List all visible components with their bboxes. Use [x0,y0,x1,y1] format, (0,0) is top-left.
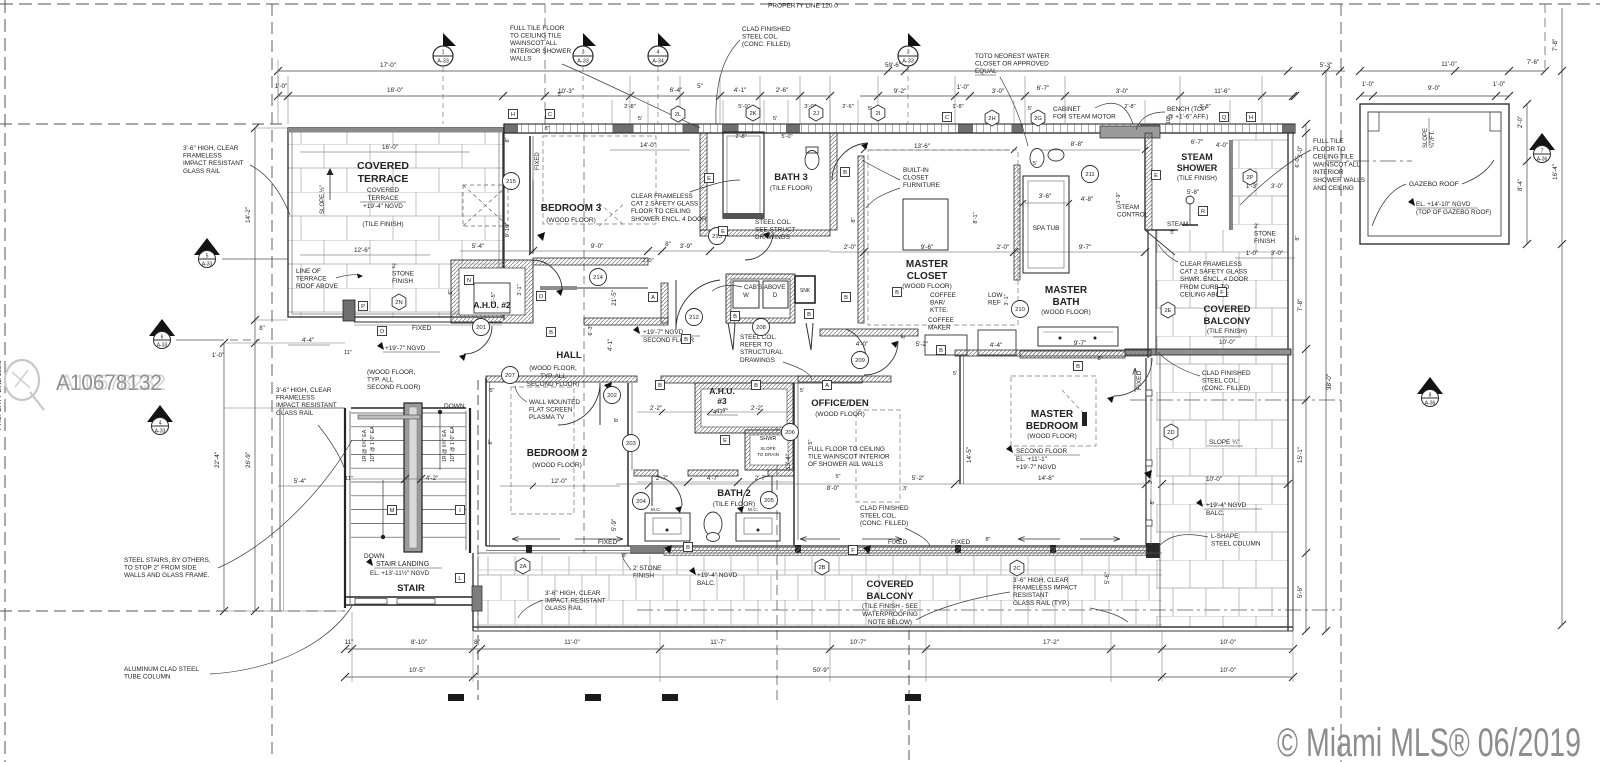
left dim line x255 [254,128,256,611]
svg-text:8'-4": 8'-4" [1518,179,1524,191]
svg-text:9'-0": 9'-0" [1428,85,1441,92]
grid square B [1074,362,1083,371]
svg-text:2L: 2L [675,112,682,118]
svg-text:2K: 2K [749,111,756,117]
steel col V column right [806,323,813,350]
grid square E [721,436,730,445]
svg-text:7: 7 [1541,149,1544,155]
svg-text:202: 202 [607,393,617,399]
ahu2 inner unit [474,283,510,313]
svg-text:SECOND FLOOR): SECOND FLOOR) [527,381,579,388]
svg-text:EL. +14'-10" NGVD: EL. +14'-10" NGVD [1416,201,1471,208]
slider arrow pair 1 [512,538,560,540]
svg-text:A-36: A-36 [1537,157,1548,163]
svg-text:3': 3' [903,486,907,492]
section marker 3/A-33 left [583,33,596,46]
svg-text:3: 3 [581,50,584,56]
svg-text:A.H.U.: A.H.U. [709,386,735,396]
svg-text:CONTROL: CONTROL [1117,212,1149,219]
svg-text:BAR/: BAR/ [930,300,945,307]
svg-text:SECOND FLOOR: SECOND FLOOR [1016,448,1068,455]
stair south wall [345,596,473,598]
svg-text:B: B [733,314,737,320]
svg-text:FRAMELESS IMPACT: FRAMELESS IMPACT [1013,585,1077,592]
svg-text:NOTE BELOW): NOTE BELOW) [868,619,912,626]
svg-text:A-33: A-33 [202,262,213,268]
bath2 dim lines [637,411,793,413]
steam shower walls [1144,133,1146,230]
svg-text:3'-0": 3'-0" [1297,146,1304,159]
svg-text:21'-5": 21'-5" [611,290,618,306]
svg-text:OF SHOWER ALL WALLS: OF SHOWER ALL WALLS [808,461,883,468]
washer box [733,281,759,308]
svg-text:2B: 2B [818,565,825,571]
bath2 vanity right [736,513,780,541]
svg-text:CAT 2 SAFETY GLASS: CAT 2 SAFETY GLASS [631,201,698,208]
svg-text:B: B [658,383,662,389]
svg-text:2E: 2E [1164,308,1171,314]
door arc master bedroom entry [846,329,866,360]
svg-text:GLASS RAIL (TYP.): GLASS RAIL (TYP.) [1013,600,1069,607]
west wall bedroom2 [485,378,487,546]
bath2 north hatched sill strip [664,548,1146,556]
south window wall of house [486,545,1146,547]
top wall mullion extension lines [611,100,613,124]
master bath south wall hatched [1020,351,1125,358]
svg-text:5': 5' [868,106,872,112]
svg-text:5: 5 [206,254,209,260]
hex marker 2I [871,105,885,121]
bedroom3 ceiling dashed rect [543,136,656,224]
east balcony inner boundary glass [1155,230,1157,355]
steam shower head symbol [1186,196,1194,204]
hex marker 2N [392,294,406,310]
stair west wall [344,408,346,608]
svg-text:A-33: A-33 [155,429,166,435]
grid square E [705,174,714,183]
hex marker 2L [671,106,685,122]
svg-text:CLEAR FRAMELESS: CLEAR FRAMELESS [631,193,693,200]
slider arrow pair 3 [1018,538,1060,540]
svg-text:ALUMINUM CLAD STEEL: ALUMINUM CLAD STEEL [124,666,199,673]
svg-text:HALL: HALL [556,350,582,361]
svg-text:14'-8": 14'-8" [1038,475,1054,482]
svg-text:A: A [651,295,655,301]
steam shower bench [1100,126,1160,138]
svg-text:STEAM: STEAM [1167,221,1188,228]
master bedroom ceiling dashed rect [1011,376,1096,446]
svg-text:O: O [380,329,385,335]
svg-text:8": 8" [901,333,907,338]
svg-text:TO DRAIN: TO DRAIN [757,452,779,457]
svg-text:5': 5' [1028,106,1032,112]
covered terrace tile floor [288,131,503,317]
svg-text:3'-0": 3'-0" [992,88,1005,95]
svg-text:B: B [843,170,847,176]
bedroom3 window small arrow marks [532,180,534,254]
closet-bath divider wall [1014,165,1020,280]
svg-text:BUILT-IN: BUILT-IN [903,167,929,174]
svg-text:REFER TO: REFER TO [740,342,772,349]
master closet south wall [820,329,918,336]
grid square I [456,506,465,515]
svg-text:FULL TILE: FULL TILE [1313,138,1344,145]
svg-text:FULL TILE FLOOR: FULL TILE FLOOR [510,25,565,32]
door arc hall to closet corridor [676,280,720,330]
svg-text:17'-2": 17'-2" [1043,639,1059,646]
svg-text:@ +1'-6" AFF.): @ +1'-6" AFF.) [1167,114,1208,121]
svg-text:5'-3": 5'-3" [1320,62,1333,69]
grid square C [546,110,555,119]
door flag south wall 2 [863,545,871,554]
svg-text:8": 8" [1097,356,1102,362]
svg-text:SNK: SNK [800,288,811,294]
door flag bedroom2 [604,382,612,391]
right dim line x1306 [1305,124,1307,631]
svg-text:A-33: A-33 [157,343,168,349]
ahu3 shower cell [745,430,793,470]
svg-text:FINISH: FINISH [392,278,413,285]
hall south wall mid segment [661,376,862,383]
svg-text:2C: 2C [1013,566,1020,572]
svg-text:CAT 2 SAFETY GLASS: CAT 2 SAFETY GLASS [1180,269,1247,276]
svg-text:4'-2": 4'-2" [426,475,439,482]
svg-text:6": 6" [448,289,454,294]
svg-text:FINISH: FINISH [1254,238,1275,245]
svg-text:5'-0": 5'-0" [781,134,792,140]
svg-text:8'-1": 8'-1" [973,212,979,223]
svg-text:8'-0": 8'-0" [827,485,840,492]
svg-text:BATH 2: BATH 2 [717,488,751,499]
svg-text:COFFEE: COFFEE [930,292,956,299]
grid dashed line southwest [0,610,345,612]
hall west wall piece [661,283,668,323]
svg-text:A-33: A-33 [902,59,914,65]
svg-text:TUBE COLUMN: TUBE COLUMN [124,674,171,681]
bath2 mid wall [634,470,658,476]
svg-text:8: 8 [1429,393,1432,399]
svg-text:2G: 2G [1034,116,1042,122]
fixed window under terrace [354,321,502,323]
svg-text:TYP. ALL: TYP. ALL [540,373,566,380]
svg-text:STONE: STONE [1254,231,1276,238]
room number 202 [604,387,621,404]
svg-text:STONE: STONE [392,271,414,278]
section marker 3/A-33 right [908,33,921,46]
svg-text:16'-0": 16'-0" [387,87,403,94]
triangle marker 4/A-33 lower [147,405,173,422]
svg-text:IMPACT RESISTANT: IMPACT RESISTANT [545,598,606,605]
door arc bath2 left [652,476,682,506]
bath2 toilet [704,512,722,536]
svg-text:(WOOD FLOOR): (WOOD FLOOR) [815,411,864,418]
svg-text:IMPACT RESISTANT: IMPACT RESISTANT [183,160,244,167]
svg-text:4'-0": 4'-0" [856,341,869,348]
svg-text:5'-6": 5'-6" [1297,586,1304,599]
office east dashed closet [856,410,900,502]
terrace-side window sill bedroom3 [503,124,505,320]
svg-text:6'-5": 6'-5" [491,292,497,304]
built-in closet dashed furniture [868,150,1018,325]
grid square F [849,546,858,555]
svg-text:FIXED: FIXED [535,152,541,170]
gazebo leader [1372,184,1406,226]
svg-text:CEILING TILE: CEILING TILE [1313,154,1354,161]
svg-text:8'-8": 8'-8" [1071,141,1084,148]
svg-text:FLAT SCREEN: FLAT SCREEN [529,407,573,414]
svg-text:8": 8" [985,537,990,543]
svg-text:DOWN: DOWN [364,553,385,560]
laundry cabinet walls [726,274,795,323]
property line top [0,3,1600,5]
svg-text:13'-4": 13'-4" [785,454,792,470]
svg-text:PLASMA TV: PLASMA TV [529,414,565,421]
svg-text:5'-6": 5'-6" [1104,572,1111,584]
svg-text:Q: Q [1222,115,1227,121]
svg-text:1'-0": 1'-0" [1362,81,1375,88]
svg-text:CLAD FINISHED: CLAD FINISHED [860,505,909,512]
svg-text:FIXED: FIXED [888,539,907,546]
left dim line x224 [223,343,225,611]
grid dashed line vertical x777 [776,390,778,700]
svg-text:SECOND FLOOR): SECOND FLOOR) [367,384,420,391]
svg-text:11'-6": 11'-6" [1214,88,1230,95]
hex marker 2H [985,110,999,126]
svg-text:4: 4 [656,50,659,56]
triangle marker 7/A-36 [1529,133,1555,150]
svg-text:11'-0": 11'-0" [1441,61,1457,68]
grid dashed line west [0,123,288,125]
svg-text:4: 4 [159,421,162,427]
centerline right balcony [1130,399,1341,401]
east covered balcony tile floor [1156,133,1288,627]
room number 203 [623,435,640,452]
svg-text:FLOOR TO CEILING: FLOOR TO CEILING [631,208,691,215]
grid square E [719,227,728,236]
svg-text:CLOSET: CLOSET [907,271,948,282]
svg-text:5": 5" [808,439,814,444]
svg-text:MASTER: MASTER [1031,409,1074,420]
svg-text:B: B [895,290,899,296]
gazebo roof outline [1360,104,1509,244]
svg-text:1'-0": 1'-0" [212,352,224,359]
svg-text:9'-6": 9'-6" [921,244,934,251]
hex marker 2K [746,105,760,121]
slider arrow pair 2 [800,538,840,540]
svg-text:GLASS RAIL: GLASS RAIL [276,410,314,417]
svg-text:211: 211 [1085,172,1094,178]
hex marker 2P [1243,169,1257,185]
hall mid south wall [584,318,668,325]
svg-text:TOTO NEOREST WATER: TOTO NEOREST WATER [975,53,1050,60]
svg-text:203: 203 [626,441,636,447]
grid square Q [1220,113,1229,122]
svg-text:E: E [723,438,727,444]
master bath east wall lower [1147,230,1149,358]
svg-text:WAINSCOT ALL: WAINSCOT ALL [1313,161,1360,168]
svg-text:GLASS RAIL: GLASS RAIL [183,168,221,175]
triangle marker 5/A-33 [194,238,220,255]
section marker 1/A-33 [443,33,456,46]
svg-text:10T @ 1'-0" EA: 10T @ 1'-0" EA [450,426,456,462]
svg-text:3'-6" HIGH, CLEAR: 3'-6" HIGH, CLEAR [1013,577,1069,584]
hex marker 2B [815,559,829,575]
svg-text:© Miami MLS® 06/2019: © Miami MLS® 06/2019 [1277,721,1581,762]
svg-text:10'-0": 10'-0" [1220,667,1236,674]
hex marker 2G [1031,110,1045,126]
steam shower west wall hatched [1145,133,1152,230]
grid square B [656,381,665,390]
svg-text:EL. +11'-1": EL. +11'-1" [1016,456,1047,463]
svg-text:5": 5" [557,92,562,98]
svg-text:A-33: A-33 [577,59,589,65]
svg-text:(WOOD FLOOR): (WOOD FLOOR) [1041,309,1090,316]
svg-text:STEAM: STEAM [1117,204,1139,211]
svg-text:BEDROOM: BEDROOM [1026,421,1078,432]
far right dim x1562 [1561,8,1563,625]
svg-text:B: B [939,348,943,354]
svg-text:COVERED: COVERED [357,160,409,172]
svg-text:H: H [511,112,515,118]
svg-text:2'-8": 2'-8" [735,134,746,140]
svg-text:3'-8": 3'-8" [1199,104,1210,110]
bath2 east wall [793,383,795,546]
svg-text:B: B [844,295,848,301]
svg-text:M: M [390,508,395,514]
svg-text:STEEL COL.: STEEL COL. [1202,378,1239,385]
covered terrace top rail [288,128,503,133]
grid dashed line vertical x1341 [1340,4,1342,762]
svg-text:4'-0": 4'-0" [1216,143,1228,149]
svg-text:(TILE FINISH - SEE: (TILE FINISH - SEE [862,603,918,610]
svg-text:F: F [1220,290,1224,296]
svg-text:BALC.: BALC. [1206,510,1225,517]
svg-text:2J: 2J [813,111,819,117]
room number 212 [686,309,703,326]
svg-text:COVERED: COVERED [367,187,399,194]
svg-text:2D: 2D [1167,430,1174,436]
property line left [4,0,6,762]
svg-text:8'-10": 8'-10" [411,639,427,646]
terrace dark column [343,300,355,321]
grid square L [456,574,465,583]
svg-text:1: 1 [441,50,444,56]
svg-text:2'-8": 2'-8" [624,104,636,110]
west wall of bedroom3 wing [529,136,531,254]
grid square F [1218,288,1227,297]
svg-text:EQUAL: EQUAL [975,68,997,75]
bottom dim line row1 [345,648,1293,650]
svg-text:B: B [684,337,688,343]
room number 205 [761,492,778,509]
interior dim string y251 [460,250,830,252]
stair rail top connector [280,407,345,409]
svg-text:DRAWINGS: DRAWINGS [740,357,775,364]
svg-text:13'-6": 13'-6" [914,143,930,150]
svg-text:7'-8": 7'-8" [1552,39,1559,52]
south balcony left edge [472,553,474,631]
svg-text:10'-0": 10'-0" [1206,476,1222,483]
svg-text:SHOWER: SHOWER [1177,163,1218,173]
room number 208 [753,319,770,336]
svg-text:11'-7": 11'-7" [710,639,726,646]
svg-text:(WOOD FLOOR): (WOOD FLOOR) [1027,433,1076,440]
svg-text:PROPERTY LINE 158.0: PROPERTY LINE 158.0 [0,360,3,430]
svg-text:10'-7": 10'-7" [850,639,866,646]
north wall column blocks [504,125,518,133]
svg-text:INTERIOR: INTERIOR [1313,169,1344,176]
room number 206 [782,424,799,441]
svg-text:RESISTANT: RESISTANT [1013,592,1048,599]
svg-text:26'-9": 26'-9" [245,452,252,468]
svg-text:COVERED: COVERED [867,579,914,590]
stair east wall [469,408,471,553]
svg-text:(WOOD FLOOR): (WOOD FLOOR) [546,217,595,224]
grid square B [731,312,740,321]
office north wall [798,376,891,382]
stair side glass rail lines [279,408,281,611]
room number 204 [633,493,650,510]
centerline south balcony [637,609,1341,611]
svg-text:A: A [825,383,829,389]
svg-text:(TOP OF GAZEBO ROOF): (TOP OF GAZEBO ROOF) [1416,209,1491,216]
svg-text:M.C.: M.C. [651,507,661,513]
svg-text:9'-10": 9'-10" [505,223,511,238]
triangle marker 8/A-36 [1417,377,1443,394]
svg-text:B: B [754,383,758,389]
svg-text:WALLS AND GLASS FRAME.: WALLS AND GLASS FRAME. [124,572,210,579]
gazebo corner notches [1368,112,1379,131]
balcony beam stone finish [1125,349,1291,355]
svg-text:BALC.: BALC. [697,580,716,587]
svg-text:5'-9": 5'-9" [611,519,618,531]
svg-text:4'-4": 4'-4" [302,337,314,344]
svg-text:M.C.: M.C. [748,507,758,513]
svg-text:R: R [1201,209,1205,215]
grid square E [1152,171,1161,180]
bedroom3-bath3 divider wall [700,133,707,230]
svg-text:+19'-7" NGVD: +19'-7" NGVD [385,345,426,352]
svg-text:+19'-4" NGVD: +19'-4" NGVD [363,203,403,210]
balcony corner column [472,586,482,611]
svg-text:(TILE FINISH): (TILE FINISH) [1207,328,1247,335]
svg-text:STEAM: STEAM [1181,152,1213,162]
svg-text:10'-5": 10'-5" [409,667,425,674]
svg-text:12'-6": 12'-6" [354,247,370,254]
door arc steam shower glass [1145,230,1175,255]
svg-text:CLOSET OR APPROVED: CLOSET OR APPROVED [975,61,1049,68]
door arc master closet west [864,341,898,375]
svg-text:8': 8' [614,418,620,422]
svg-text:B: B [686,545,690,551]
svg-text:(TILE FINISH): (TILE FINISH) [1177,175,1217,182]
svg-text:WALLS: WALLS [510,55,531,62]
master bath vanity [1038,327,1118,346]
svg-text:11'-0": 11'-0" [564,639,580,646]
top dim extension verticals [277,76,279,124]
svg-text:8": 8" [544,126,549,132]
svg-text:P: P [361,304,365,310]
svg-text:3'-9": 3'-9" [1116,192,1122,203]
svg-text:2': 2' [1254,223,1259,230]
svg-text:5'-2": 5'-2" [912,475,925,482]
bedroom3 south wall [533,258,648,265]
svg-text:10T @ 1'-0" EA: 10T @ 1'-0" EA [370,426,376,462]
svg-text:#3: #3 [717,396,727,406]
svg-text:8": 8" [474,639,480,646]
left dim extensions [224,342,345,344]
svg-text:CLOSET: CLOSET [903,175,929,182]
